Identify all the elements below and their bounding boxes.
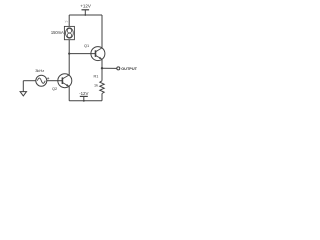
wire source to Q2 base — [47, 80, 63, 82]
svg-text:3kHz: 3kHz — [35, 68, 44, 73]
ground — [20, 92, 26, 96]
svg-text:-12V: -12V — [79, 91, 88, 96]
lamp L1 150mA — [51, 20, 75, 40]
svg-text:+12V: +12V — [80, 4, 91, 9]
wire Q2 emitter to bottom rail — [68, 87, 70, 101]
transistor Q1 — [84, 43, 105, 60]
wire Q1 collector to rail — [101, 15, 103, 48]
source V1 3kHz — [35, 68, 50, 86]
wire node to Q1 base — [69, 53, 95, 55]
power -12V — [79, 91, 88, 102]
wire Q1 emitter to output node — [101, 59, 103, 68]
resistor R1 1k — [94, 68, 105, 101]
svg-text:R1: R1 — [94, 74, 99, 78]
wire source to ground — [23, 80, 36, 82]
wire output — [102, 67, 117, 69]
node junction dot — [68, 53, 70, 55]
wire bottom rail — [69, 100, 102, 102]
wire rail to lamp — [68, 15, 70, 26]
svg-text:1k: 1k — [94, 83, 98, 87]
svg-text:Q1: Q1 — [84, 43, 89, 48]
wire top rail — [69, 14, 102, 16]
svg-text:+: + — [47, 76, 50, 81]
output node junction dot — [101, 67, 103, 69]
svg-text:Q2: Q2 — [52, 86, 57, 91]
transistor Q2 — [52, 74, 72, 92]
svg-text:V+: V+ — [65, 20, 69, 24]
wire lamp to Q2 collector — [68, 40, 70, 75]
svg-text:OUTPUT: OUTPUT — [121, 67, 137, 71]
output terminal circle — [117, 67, 120, 70]
svg-text:150mA: 150mA — [51, 30, 64, 35]
power +12V — [80, 4, 91, 16]
